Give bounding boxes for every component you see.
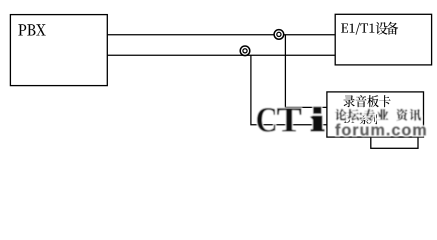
- wire V1+H1: tap from L1 down and right to recorder box: [285, 35, 327, 108]
- wire L2: PBX to E1/T1 lower trunk: [107, 54, 335, 56]
- PBX switch box: [10, 15, 107, 86]
- wire L1: PBX to E1/T1 upper trunk: [107, 34, 335, 36]
- watermark CTi forum.com logo (论坛:专业资讯): [257, 107, 426, 136]
- label E1/T1 设备: [341, 22, 398, 35]
- label 录音板卡: [344, 95, 391, 107]
- E1/T1 device box: [335, 14, 431, 65]
- recording card box 录音板卡: [327, 92, 424, 137]
- wire V2+H2: tap from L2 down and right to recorder box: [251, 55, 327, 124]
- tap connector circle on L2 (high-impedance tap): [240, 46, 250, 56]
- label DP 系列: [344, 114, 378, 124]
- label PBX: [18, 24, 45, 35]
- tap connector circle on L1 (high-impedance tap): [274, 30, 284, 40]
- connector tab box below recorder: [371, 137, 418, 148]
